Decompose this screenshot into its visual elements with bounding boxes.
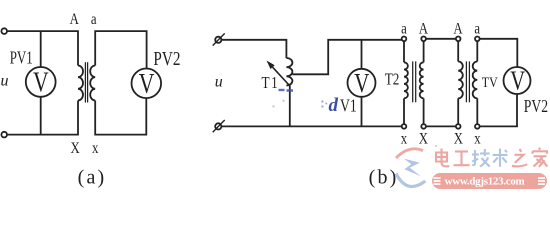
- svg-text:X: X: [419, 130, 429, 148]
- svg-text:a: a: [91, 11, 97, 29]
- svg-text:V: V: [33, 67, 49, 99]
- svg-text:T2: T2: [385, 71, 400, 89]
- svg-text:u: u: [215, 74, 223, 91]
- svg-text:X: X: [454, 130, 464, 148]
- svg-text:A: A: [70, 11, 80, 29]
- svg-text:A: A: [419, 20, 429, 38]
- svg-text:a: a: [401, 20, 407, 38]
- svg-text:A: A: [453, 20, 463, 38]
- svg-text:(b): (b): [369, 166, 399, 188]
- svg-text:x: x: [474, 130, 481, 148]
- svg-text:V: V: [510, 67, 525, 96]
- svg-text:x: x: [401, 130, 408, 148]
- svg-text:X: X: [71, 140, 81, 158]
- svg-text:www.dgjs123.com: www.dgjs123.com: [445, 176, 525, 188]
- svg-text:d: d: [329, 95, 339, 116]
- svg-text:V: V: [139, 68, 155, 100]
- svg-text:x: x: [92, 140, 99, 158]
- svg-text:(a): (a): [78, 166, 107, 188]
- svg-text:u: u: [1, 73, 9, 90]
- svg-text:T1: T1: [262, 75, 280, 93]
- svg-text:PV2: PV2: [524, 97, 548, 116]
- svg-text:PV2: PV2: [153, 47, 180, 70]
- svg-text:PV1: PV1: [10, 49, 33, 69]
- svg-text:V1: V1: [340, 97, 357, 116]
- svg-text:TV: TV: [482, 74, 498, 91]
- svg-text:V: V: [354, 69, 369, 99]
- svg-text:a: a: [474, 20, 480, 38]
